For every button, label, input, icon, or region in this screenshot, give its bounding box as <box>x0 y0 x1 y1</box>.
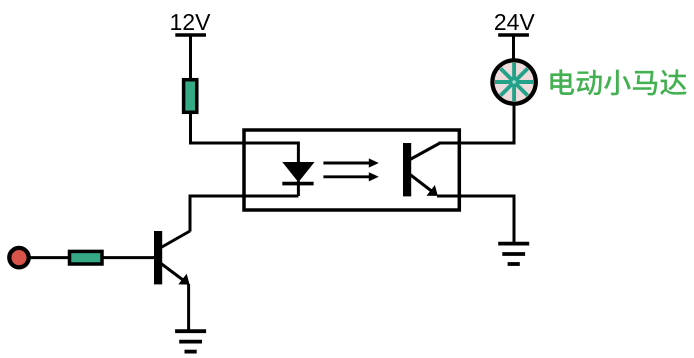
label 电动小马达 <box>550 69 686 95</box>
LED D1 triangle <box>283 163 313 182</box>
Q2 collector wire to motor <box>439 103 515 143</box>
Q2 emitter wire to ground <box>437 196 514 242</box>
resistor R1 <box>184 80 197 113</box>
Q1 emitter wire to ground <box>187 284 190 331</box>
resistor R2 <box>70 251 103 264</box>
phototransistor Q2 base bar <box>403 143 411 196</box>
optocoupler U1 box <box>244 130 459 210</box>
ground GND2 bar2 <box>502 252 525 256</box>
light arrow 2 <box>323 172 378 181</box>
power label 12V <box>171 14 210 30</box>
Q1 collector diagonal <box>161 231 190 248</box>
wire J1 to R2 <box>28 256 70 259</box>
LED D1 cathode lead <box>297 181 300 196</box>
light arrow 1 <box>323 158 378 167</box>
ground GND2 bar3 <box>508 262 520 266</box>
motor M1 center dot <box>512 80 516 84</box>
ground GND2 bar1 <box>498 242 529 246</box>
ground GND1 bar3 <box>185 350 197 354</box>
input node J1 <box>9 248 28 267</box>
wire LED cathode return (box to Q1 collector) <box>190 196 298 232</box>
power rail bar 24V <box>498 33 529 37</box>
wire R2 to Q1 base <box>102 256 155 259</box>
power rail bar 12V <box>175 33 206 37</box>
LED D1 cathode bar <box>282 182 313 186</box>
transistor Q1 base bar <box>154 231 162 284</box>
Q2 emitter diagonal with arrowhead <box>410 175 438 196</box>
motor M1 circle <box>492 60 535 103</box>
Q1 emitter diagonal with arrowhead <box>161 264 190 285</box>
wire re-draw anode entry over box edge <box>244 143 298 165</box>
power label 24V <box>495 14 535 30</box>
Q2 collector diagonal <box>410 143 440 160</box>
wire 12V rail to R1 top <box>189 35 192 80</box>
wire 24V rail to motor <box>512 35 515 62</box>
motor M1 asterisk <box>495 63 533 101</box>
ground GND1 bar2 <box>179 340 202 344</box>
wire R1 bottom to optocoupler LED anode <box>191 112 299 165</box>
ground GND1 bar1 <box>175 329 206 333</box>
